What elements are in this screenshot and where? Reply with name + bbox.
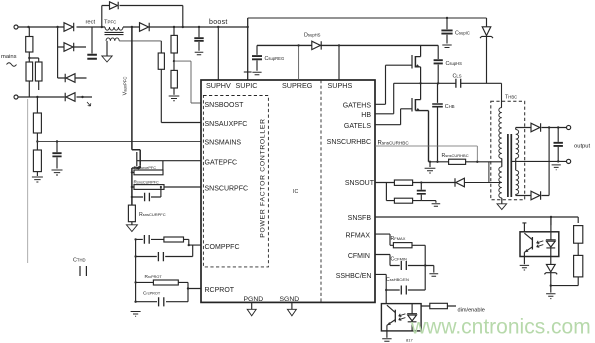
wire snsout to diode	[413, 182, 455, 184]
node HB b	[437, 82, 439, 84]
node source c	[131, 196, 133, 198]
terminal L	[14, 25, 18, 29]
svg-text:SUPIC: SUPIC	[236, 81, 258, 90]
label CCFMIN	[391, 257, 408, 263]
capacitor CrcPROT	[136, 289, 188, 302]
wire bottom rail	[18, 96, 92, 98]
node rcprot pin join	[187, 287, 189, 289]
wire SNSBOOST tap	[174, 61, 201, 103]
node after D4	[81, 96, 83, 98]
svg-text:SNSOUT: SNSOUT	[345, 180, 375, 187]
fuse F1	[26, 37, 33, 53]
label CssHBC/EN	[386, 277, 409, 283]
pin label GATEPFC	[205, 160, 238, 167]
node SUPHS	[338, 44, 340, 46]
transformer TPFC aux winding	[106, 38, 119, 41]
ground Cboost	[195, 52, 204, 55]
transformer THBC primary winding	[499, 108, 502, 159]
node comp bus a	[134, 238, 136, 240]
pin label SUPHS	[328, 81, 353, 90]
node SUPIC rail	[247, 26, 249, 28]
wire HB node	[394, 82, 502, 84]
ground out	[552, 165, 561, 170]
pin label SNSFB	[348, 215, 372, 222]
transistor Q1 gatePFC	[136, 152, 138, 166]
transformer TPFC core	[105, 32, 124, 34]
diode Daux	[455, 178, 464, 187]
pin label PGND	[244, 296, 264, 303]
diode Dbypass	[110, 2, 119, 9]
resistor RsnsMAINS1	[33, 113, 41, 133]
svg-text:COMPPFC: COMPPFC	[205, 244, 240, 251]
wire comp branch2	[136, 245, 193, 256]
resistor RsnsOUT1	[394, 180, 412, 185]
label CHB	[445, 104, 455, 110]
node mains sense tap	[36, 140, 38, 142]
svg-text:POWER FACTOR CONTROLLER: POWER FACTOR CONTROLLER	[260, 118, 267, 237]
svg-text:SNSCURHBC: SNSCURHBC	[327, 139, 371, 146]
capacitor CTHD	[80, 266, 86, 276]
label RsnsCURHBC res	[442, 153, 469, 159]
node sense gnd	[429, 161, 431, 163]
ground comp bus	[131, 312, 141, 317]
wire sec1 top lead	[516, 128, 531, 130]
pin label SNSBOOST	[205, 102, 245, 109]
ground mains divider	[32, 177, 43, 182]
capacitor Cboost	[198, 27, 200, 51]
wire Q2 drain	[415, 45, 420, 56]
wire comp left bus	[135, 239, 137, 301]
diode DsupHS	[312, 41, 321, 49]
wire earth line	[27, 99, 29, 263]
node divider tap	[173, 60, 175, 62]
pin label HB	[361, 112, 371, 119]
resistor RrcPROT	[136, 282, 201, 288]
label CsupREG	[265, 56, 285, 62]
ground bus	[425, 266, 434, 273]
node choke tap	[28, 57, 30, 59]
ground PGND	[251, 302, 253, 309]
rect node label	[86, 20, 96, 26]
wire SUPHV riser	[217, 27, 219, 80]
svg-text:SNSMAINS: SNSMAINS	[205, 140, 242, 147]
transformer TPFC label	[104, 20, 116, 26]
node rect rail	[101, 26, 103, 28]
svg-text:IC: IC	[293, 189, 298, 195]
resistor RsnsBOOST2	[173, 53, 175, 70]
wire Q3 source	[415, 111, 428, 162]
node cboost top	[198, 26, 200, 28]
wire HB pin	[375, 83, 394, 114]
wire SSHBC/EN	[375, 274, 425, 303]
ground HBC sense	[429, 162, 431, 167]
resistor Rdim	[421, 305, 456, 307]
wire center tap out	[512, 160, 566, 162]
label output	[574, 143, 591, 149]
diode Dz2 zener	[544, 257, 557, 286]
capacitor CcompPFC2	[158, 252, 163, 261]
capacitor CsnsOUT	[420, 183, 422, 201]
wire CFMIN	[375, 255, 425, 266]
pin label RFMAX	[346, 233, 371, 240]
node fb gnd	[550, 284, 552, 286]
pin label SNSOUT	[345, 180, 375, 187]
terminal out minus	[567, 159, 571, 163]
node source b	[131, 186, 133, 188]
label POWER FACTOR CONTROLLER	[260, 118, 267, 237]
label opto part	[406, 338, 413, 343]
wire RFMAX	[375, 234, 425, 245]
svg-text:SUPREG: SUPREG	[282, 81, 313, 90]
ground TPFC aux	[102, 56, 112, 62]
wire SUPHS riser	[338, 45, 340, 80]
optocoupler U2 box	[520, 232, 559, 257]
node out minus	[557, 160, 559, 162]
wire drain line	[132, 27, 140, 151]
node sense tap	[476, 161, 478, 163]
vertical label VauxPFC	[123, 77, 129, 96]
IC internal dashed separator	[320, 80, 322, 302]
wire GATELS	[375, 109, 412, 125]
ground THBC aux	[497, 204, 507, 210]
resistor RcompPFC	[164, 237, 184, 242]
node source a	[131, 171, 133, 173]
svg-text:SUPHV: SUPHV	[206, 81, 231, 90]
node filter join	[160, 186, 162, 188]
pin label SUPREG	[282, 81, 313, 90]
pin label SNSCURPFC	[205, 186, 249, 193]
capacitor CsnsCURPFC	[132, 187, 161, 197]
transistor U3 photo	[394, 310, 396, 323]
wire SUPIC riser	[247, 18, 249, 80]
node rail N	[36, 96, 38, 98]
arrow mark	[87, 102, 91, 106]
opto U2 light arrows	[537, 241, 544, 248]
transistor Q3 LS mosfet	[411, 98, 413, 112]
ground SGND	[291, 302, 293, 309]
capacitor CHB	[437, 83, 439, 162]
wire choke ties	[29, 58, 38, 97]
transformer THBC secondary 2	[516, 170, 519, 194]
pin label GATELS	[344, 123, 371, 130]
wire sec2 bottom lead	[516, 194, 531, 195]
svg-text:SGND: SGND	[280, 296, 300, 303]
wire SNSOUT pin	[375, 183, 394, 201]
wire rail A	[248, 17, 487, 19]
resistor RFMAX	[393, 243, 412, 248]
label DsupHS	[304, 33, 321, 39]
capacitor CssHBC	[401, 286, 406, 295]
svg-text:RCPROT: RCPROT	[205, 287, 235, 294]
node HB a	[419, 82, 421, 84]
svg-text:CFMIN: CFMIN	[348, 253, 370, 260]
node SUPREG	[297, 44, 299, 46]
capacitor CLS series	[456, 79, 461, 88]
pin label SUPIC	[236, 81, 258, 90]
svg-text:SNSCURPFC: SNSCURPFC	[205, 186, 249, 193]
wire aux right lead to sense	[119, 40, 161, 42]
transistor U2 photo	[531, 237, 533, 250]
wire HBC sense line	[429, 161, 491, 163]
pin label RCPROT	[205, 287, 235, 294]
pin label SNSAUXPFC	[205, 121, 248, 128]
transformer TPFC primary winding	[105, 27, 123, 30]
node drain tap	[131, 26, 133, 28]
svg-text:www.cntronics.com: www.cntronics.com	[410, 316, 591, 339]
svg-text:output: output	[574, 143, 591, 149]
node CsupIC	[446, 17, 448, 19]
wire Q3 drain	[415, 83, 420, 99]
diode D1 bridge	[64, 23, 74, 32]
mains label	[1, 54, 17, 60]
node bridge top	[56, 26, 58, 28]
pin label SSHBC/EN	[336, 273, 372, 280]
pin label SUPHV	[206, 81, 231, 90]
svg-text:SSHBC/EN: SSHBC/EN	[336, 273, 372, 280]
resistor RsnsMAINS2	[33, 150, 41, 172]
wire out plus	[541, 127, 566, 129]
pin label CFMIN	[348, 253, 370, 260]
wire fb mid	[577, 243, 579, 255]
pin label SNSMAINS	[205, 140, 242, 147]
svg-text:PGND: PGND	[244, 296, 264, 303]
wire Q1 source	[132, 165, 140, 205]
diode D2 bridge	[64, 43, 86, 52]
label CsupIC	[455, 30, 470, 36]
wire snsout gnd	[421, 201, 436, 203]
svg-text:GATEHS: GATEHS	[343, 102, 372, 109]
wire aux top lead	[491, 162, 502, 167]
wire rail B SUPHS	[257, 44, 438, 46]
resistor RsnsCURHBC	[449, 159, 466, 164]
svg-text:GATELS: GATELS	[344, 123, 371, 130]
node rcprot bus a	[134, 281, 136, 283]
resistor RsourcePFC	[132, 161, 163, 173]
wire mains divider chain	[36, 97, 38, 176]
pin label GATEHS	[343, 102, 372, 109]
transformer THBC dashed box	[491, 101, 525, 200]
diode U2 led	[546, 217, 556, 256]
label dim enable	[458, 307, 485, 313]
wire comp branch1	[136, 239, 201, 245]
node rail L	[27, 26, 29, 28]
diode Dboost	[140, 23, 150, 32]
capacitor CsupIC	[446, 18, 448, 44]
svg-text:rect: rect	[86, 20, 96, 26]
ground CsupREG	[252, 72, 261, 75]
common-mode choke winding a	[26, 62, 33, 81]
label CLS	[453, 74, 462, 80]
resistor RsnsCUR filter	[132, 186, 201, 188]
node out plus a	[548, 126, 550, 128]
wire SNSCURHBC sense	[375, 146, 477, 162]
ground snsout	[432, 204, 441, 206]
capacitor CsupHS	[437, 45, 439, 83]
capacitor CcompPFC1	[144, 235, 149, 244]
resistor RsnsOUT2	[386, 200, 421, 202]
wire SNSMAINS long line	[37, 141, 201, 143]
node SUPHV	[217, 26, 219, 28]
terminal N	[14, 95, 18, 99]
label RsnsCURHBC pin	[378, 141, 410, 147]
capacitor CsupREG	[256, 45, 258, 70]
transformer THBC aux winding	[499, 167, 502, 198]
mains sine symbol	[7, 63, 17, 67]
svg-text:SUPHS: SUPHS	[328, 81, 353, 90]
wire out rectifier join	[541, 128, 549, 196]
label THBC	[505, 95, 517, 101]
svg-text:SNSFB: SNSFB	[348, 215, 372, 222]
svg-text:SNSAUXPFC: SNSAUXPFC	[205, 121, 248, 128]
resistor RsnsCURPFC	[128, 205, 135, 222]
wire Q2 source	[415, 67, 420, 83]
label RFMAX ext	[391, 236, 406, 242]
optocoupler U3 box	[381, 304, 421, 331]
wire SUPREG riser	[298, 45, 300, 80]
wire opto riser	[550, 217, 552, 225]
resistor Rfb2	[574, 255, 583, 277]
node cap tap	[56, 140, 58, 142]
diode U3 led	[407, 304, 417, 331]
wire top rail	[18, 26, 248, 28]
diode Dout1	[531, 123, 541, 132]
pin label SNSCURHBC	[327, 139, 371, 146]
wire primary bottom lead	[501, 159, 503, 162]
ground RsnsCURPFC	[126, 225, 137, 232]
wire aux bottom lead	[501, 198, 503, 204]
node snsout cap top	[420, 181, 422, 183]
ground U3	[386, 331, 388, 338]
diode DsupAUX zener	[480, 18, 493, 83]
node divider top	[173, 26, 175, 28]
capacitor CCFMIN	[401, 261, 406, 270]
bridge bus wire	[58, 27, 64, 78]
capacitor Cout	[557, 128, 559, 162]
op-amp U1 IC body	[201, 80, 375, 302]
svg-text:SNSBOOST: SNSBOOST	[205, 102, 245, 109]
ground divider	[169, 96, 180, 101]
svg-text:HB: HB	[361, 112, 371, 119]
wire fb bottom	[551, 277, 579, 286]
wire primary top lead	[501, 83, 503, 107]
node rcprot bus b	[134, 301, 136, 303]
node SNSFB opto	[550, 216, 552, 218]
IC PFC dashed box	[203, 96, 268, 267]
transformer THBC core	[508, 134, 511, 197]
node comp bus b	[134, 255, 136, 257]
node gnd bus	[424, 264, 426, 266]
wire bypass branch	[102, 6, 183, 28]
wire SNSFB line	[375, 217, 578, 223]
svg-text:boost: boost	[209, 19, 228, 26]
wire sec taps to center	[515, 158, 517, 170]
svg-text:GATEPFC: GATEPFC	[205, 160, 238, 167]
label RsnsCURPFC	[139, 212, 166, 218]
wire aux left lead	[106, 41, 109, 56]
node bypass return	[182, 26, 184, 28]
resistor RsnsAUXPFC	[160, 41, 162, 53]
wire GATEPFC	[137, 160, 201, 162]
pin label SGND	[280, 296, 300, 303]
opto U3 light arrows	[399, 314, 406, 321]
node ss cap	[385, 289, 387, 291]
wire SNSAUXPFC	[161, 69, 201, 122]
label CrcPROT	[143, 291, 161, 297]
resistor RsnsBOOST1	[173, 27, 175, 35]
node CHB bottom	[436, 161, 438, 163]
node out plus b	[557, 126, 559, 128]
diode Dout2	[531, 191, 541, 200]
svg-text:mains: mains	[1, 54, 17, 60]
ground CsupIC	[442, 45, 451, 48]
ground U2 emitter	[520, 265, 529, 270]
diode D4 bridge	[65, 93, 75, 102]
boost node label	[209, 19, 228, 26]
wire gnd bus	[424, 245, 426, 290]
ground CsnsMAINS	[52, 170, 63, 175]
capacitor CsnsMAINS	[56, 142, 58, 169]
common-mode choke winding b	[35, 62, 42, 81]
pin label COMPPFC	[205, 244, 240, 251]
svg-text:dim/enable: dim/enable	[458, 307, 485, 313]
resistor Rfb1	[574, 226, 583, 244]
ground fb	[550, 286, 552, 293]
transformer THBC secondary 1	[516, 130, 519, 159]
diode D3 bridge	[58, 74, 87, 83]
label RrcPROT	[145, 274, 163, 280]
node comp pin join	[188, 244, 190, 246]
svg-text:RFMAX: RFMAX	[346, 233, 371, 240]
wire GATEHS	[375, 65, 412, 104]
wire U2 gnd lead	[523, 257, 525, 265]
capacitor Crect	[91, 27, 93, 54]
label CsupHS	[446, 61, 463, 67]
terminal out plus	[567, 125, 571, 129]
label IC	[293, 189, 298, 195]
wire aux tap line	[464, 162, 501, 183]
transistor Q2 HS mosfet	[411, 55, 413, 69]
